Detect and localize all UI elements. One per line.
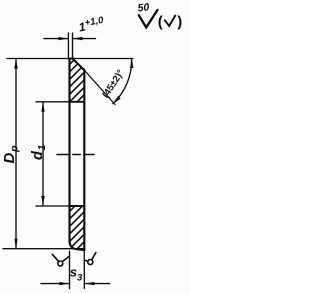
S3 dim lines (41, 283, 69, 285)
angle dimension arc (113, 59, 132, 104)
arrowhead angle arc top (130, 59, 133, 68)
inner top extension line (36, 101, 70, 103)
roughness in parens: small check (165, 16, 175, 26)
arrowhead s3 left (60, 282, 70, 285)
d1 dimension line (42, 102, 44, 205)
arrowhead d1 bottom (41, 196, 44, 206)
arrowhead chamfer dim right (73, 37, 83, 40)
roughness symbol right (85, 253, 96, 265)
top face extension line (7, 58, 133, 60)
svg-text:): ) (177, 14, 182, 31)
arrowhead chamfer dim left (59, 37, 69, 40)
svg-text:(: ( (158, 14, 163, 31)
roughness symbol left (52, 254, 69, 266)
roughness top-right: big check (139, 10, 158, 27)
arrowhead angle arc bottom (113, 96, 121, 104)
arrowhead s3 right (85, 282, 95, 285)
arrowhead Dp top (14, 59, 17, 69)
disc top face (thick) (69, 58, 74, 60)
inner bottom extension line (36, 205, 70, 207)
arrowhead d1 top (41, 102, 44, 112)
svg-text:50: 50 (137, 1, 150, 14)
chamfer extension to angle dim (84, 70, 115, 104)
1+1,0 dim: extension lines (67, 33, 69, 57)
inner top edge (70, 101, 85, 103)
centerline (57, 154, 68, 156)
disc left edge (68, 59, 70, 242)
disc right edge (83, 70, 85, 251)
bottom-left fillet (70, 242, 85, 251)
Dp dimension line (15, 59, 17, 248)
1+1,0 dim lines (44, 38, 68, 40)
arrowhead Dp bottom (14, 239, 17, 249)
S3 dim: extension lines (69, 251, 71, 289)
arrowheads (14, 37, 133, 285)
chamfer (73, 59, 85, 71)
inner bottom edge (70, 205, 85, 207)
bottom face extension line (3, 248, 85, 250)
